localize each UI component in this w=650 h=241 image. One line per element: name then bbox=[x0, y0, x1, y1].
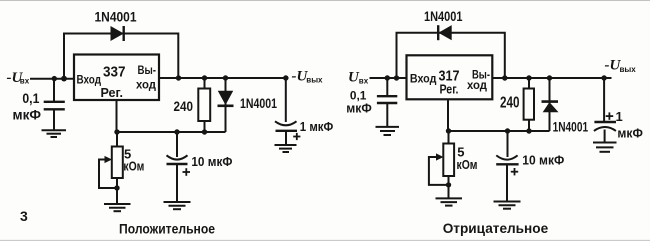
node junction dot (loop right) bbox=[176, 75, 181, 80]
capacitor C4 0.1uF bbox=[377, 96, 397, 126]
capacitor C2 10uF (polarized) bbox=[167, 155, 188, 201]
svg-text:мкФ: мкФ bbox=[346, 102, 372, 116]
svg-text:кОм: кОм bbox=[123, 158, 144, 173]
svg-text:Рег.: Рег. bbox=[101, 86, 124, 100]
node junction dot (R3 top) bbox=[526, 75, 531, 80]
op-amp U1 regulator box 337 bbox=[74, 55, 159, 101]
capacitor C1 0.1uF bbox=[44, 102, 65, 130]
svg-text:3: 3 bbox=[20, 208, 28, 224]
ground (R4) bbox=[436, 198, 463, 205]
svg-text:337: 337 bbox=[103, 64, 126, 81]
node junction dot (loop right) bbox=[502, 75, 507, 80]
resistor R3 240 bbox=[524, 89, 534, 120]
wire C6 top lead bbox=[603, 78, 605, 121]
wire pot wiper feedback bbox=[99, 160, 117, 189]
wire C3 top lead bbox=[285, 78, 287, 122]
capacitor C5 10uF (polarized) bbox=[496, 155, 518, 200]
wire regulator output rail bbox=[159, 77, 289, 79]
wire lower rail right bbox=[448, 130, 550, 132]
ground (C3) bbox=[275, 145, 297, 152]
diode D1 1N4001 (top, pointing right) bbox=[111, 26, 124, 41]
ground (C5) bbox=[494, 202, 521, 209]
node junction dot (adj/pot right) bbox=[446, 128, 451, 133]
wire D2 branch bbox=[225, 78, 227, 132]
wire C2 top lead bbox=[176, 132, 178, 157]
svg-text:Положительное: Положительное bbox=[119, 221, 215, 237]
svg-text:240: 240 bbox=[500, 95, 520, 112]
wire input to regulator bbox=[370, 77, 408, 79]
svg-text:1 мкФ: 1 мкФ bbox=[300, 120, 334, 134]
node -Uvx input label bbox=[7, 70, 30, 86]
svg-text:мкФ: мкФ bbox=[617, 127, 643, 141]
node junction dot (D4 top) bbox=[547, 75, 552, 80]
wire R3 top lead bbox=[528, 78, 530, 89]
svg-text:1N4001: 1N4001 bbox=[553, 119, 589, 134]
svg-text:Вы-: Вы- bbox=[138, 65, 157, 77]
page top edge line bbox=[0, 0, 650, 2]
plus mark (C2) bbox=[183, 168, 191, 176]
svg-text:10 мкФ: 10 мкФ bbox=[522, 154, 564, 168]
wire pot wiper feedback bbox=[429, 157, 449, 185]
svg-text:1N4001: 1N4001 bbox=[240, 95, 277, 111]
node junction dot (C3 top) bbox=[283, 75, 288, 80]
plus mark and label +1 (C6) bbox=[606, 112, 614, 119]
svg-text:1N4001: 1N4001 bbox=[424, 8, 463, 24]
wire R1 top lead bbox=[204, 78, 206, 89]
wire C4 top lead bbox=[386, 78, 388, 96]
wire R3 bottom lead bbox=[528, 120, 530, 131]
wire C5 top lead bbox=[507, 131, 509, 157]
svg-text:ход: ход bbox=[136, 79, 157, 91]
wire pot bottom lead bbox=[448, 176, 450, 198]
wire D4 branch bbox=[549, 78, 551, 131]
svg-text:кОм: кОм bbox=[457, 157, 478, 172]
svg-text:Вход: Вход bbox=[77, 75, 102, 87]
svg-text:вых: вых bbox=[620, 65, 637, 74]
capacitor C3 1uF (polarized) bbox=[275, 121, 297, 144]
wire C1 top lead bbox=[53, 79, 55, 101]
svg-text:ход: ход bbox=[467, 80, 488, 92]
svg-text:0,1: 0,1 bbox=[350, 89, 367, 103]
svg-text:1N4001: 1N4001 bbox=[95, 9, 137, 25]
wire diode bypass loop bbox=[397, 33, 505, 78]
ground (C2) bbox=[164, 202, 191, 209]
svg-text:1: 1 bbox=[616, 109, 623, 124]
ground (C1) bbox=[42, 130, 67, 137]
svg-text:Отрицательное: Отрицательное bbox=[443, 220, 549, 236]
node junction dot (C6 top) bbox=[601, 75, 606, 80]
svg-text:Вход: Вход bbox=[410, 74, 437, 86]
op-amp U2 regulator box 317 bbox=[407, 55, 493, 99]
node junction dot (adj/pot) bbox=[114, 129, 119, 134]
svg-text:Рег.: Рег. bbox=[440, 83, 459, 97]
svg-text:вых: вых bbox=[306, 76, 323, 85]
plus mark (C5) bbox=[511, 168, 518, 175]
node junction dot (C2 top) bbox=[174, 129, 179, 134]
wire pot top lead bbox=[448, 131, 450, 144]
node junction dot (pot wiper tie) bbox=[114, 185, 119, 190]
diode D3 1N4001 (top, pointing left) bbox=[438, 25, 451, 40]
potentiometer R4 5k body bbox=[443, 144, 454, 177]
wire regulator output rail bbox=[492, 77, 611, 79]
potentiometer R2 5k body bbox=[112, 147, 123, 179]
svg-text:0,1: 0,1 bbox=[22, 91, 39, 106]
node Uvx input label bbox=[348, 70, 369, 86]
wire U1 adj pin down bbox=[116, 100, 118, 132]
node junction dot (R3 bottom) bbox=[526, 128, 531, 133]
ground (R2) bbox=[104, 204, 131, 211]
node junction dot (pot wiper tie right) bbox=[446, 182, 451, 187]
wire diode bypass loop bbox=[64, 34, 178, 79]
pot wiper arrowhead bbox=[436, 153, 444, 160]
wire U2 adj pin down bbox=[447, 99, 449, 131]
node junction dot (C5 top) bbox=[505, 128, 510, 133]
svg-text:мкФ: мкФ bbox=[13, 108, 42, 123]
wire input to regulator bbox=[30, 78, 75, 80]
resistor R1 240 bbox=[198, 89, 210, 122]
node junction dot (C4 tap) bbox=[385, 75, 390, 80]
pot wiper arrowhead bbox=[105, 156, 113, 163]
node junction dot (R1 bottom) bbox=[202, 129, 207, 134]
svg-text:вх: вх bbox=[20, 77, 30, 86]
page bottom edge line bbox=[0, 239, 650, 241]
node junction dot (C1 tap) bbox=[52, 76, 57, 81]
node -Uvyx output label bbox=[605, 58, 637, 74]
plus mark (C3) bbox=[293, 133, 300, 140]
node junction dot (R1 top) bbox=[202, 75, 207, 80]
wire pot bottom lead bbox=[116, 178, 118, 203]
wire pot top lead bbox=[116, 132, 118, 147]
node junction dot (diode loop tap) bbox=[394, 75, 399, 80]
diode D4 1N4001 (pointing up) bbox=[542, 102, 559, 112]
wire R1 bottom lead bbox=[204, 121, 206, 132]
node -Uvyx output label bbox=[292, 69, 324, 85]
svg-text:240: 240 bbox=[174, 98, 194, 114]
node junction dot (diode loop tap) bbox=[61, 76, 67, 82]
svg-text:10 мкФ: 10 мкФ bbox=[191, 155, 232, 169]
diode D2 1N4001 (pointing down) bbox=[218, 91, 234, 106]
node junction dot (D2 top) bbox=[223, 75, 228, 80]
ground (C4) bbox=[376, 127, 400, 135]
ground (C6) bbox=[593, 143, 617, 152]
capacitor C6 1uF (polarized) bbox=[594, 122, 616, 142]
svg-text:вх: вх bbox=[359, 77, 369, 86]
wire lower rail left bbox=[117, 131, 226, 133]
